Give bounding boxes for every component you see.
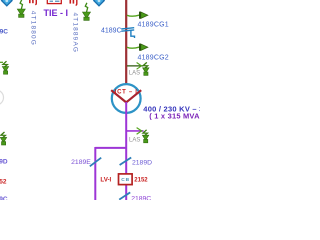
svg-text:( 1 x 315 MVA: ( 1 x 315 MVA — [149, 112, 200, 121]
svg-text:9C: 9C — [0, 196, 8, 200]
svg-text:LAS: LAS — [129, 71, 140, 77]
svg-text:TIE - I: TIE - I — [44, 8, 69, 18]
svg-text:2189E: 2189E — [71, 159, 91, 166]
svg-text:2189D: 2189D — [132, 159, 152, 166]
svg-text:89C: 89C — [0, 28, 8, 35]
svg-text:ICT – I: ICT – I — [115, 90, 138, 96]
svg-text:2189C: 2189C — [131, 195, 151, 200]
svg-text:4189CG1: 4189CG1 — [138, 21, 169, 28]
svg-text:4189CG2: 4189CG2 — [138, 55, 169, 62]
svg-text:2152: 2152 — [134, 178, 148, 184]
svg-text:9D: 9D — [0, 159, 8, 166]
svg-text:LV-I: LV-I — [100, 177, 111, 184]
svg-text:4T1889AG: 4T1889AG — [72, 13, 79, 54]
svg-text:LAS: LAS — [129, 137, 140, 143]
svg-text:CB: CB — [121, 177, 130, 183]
svg-text:52: 52 — [0, 178, 7, 185]
svg-text:4T1880G: 4T1880G — [30, 11, 37, 46]
svg-text:4189C: 4189C — [101, 28, 122, 35]
